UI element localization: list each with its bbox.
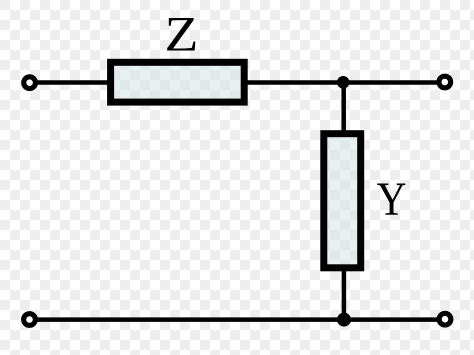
wire: top rail from Z to output terminal (245, 80, 445, 85)
svg-text:Y: Y (377, 173, 407, 226)
terminal: top-right output port (439, 76, 451, 88)
terminal: bottom-right port (439, 313, 451, 325)
terminal: top-left input port (24, 77, 36, 89)
wire: top-left rail from input terminal to Z (30, 80, 112, 85)
junction node: top rail / shunt branch (337, 76, 350, 89)
wire: bottom rail (30, 317, 446, 322)
series impedance Z (box) (111, 62, 245, 102)
wire: shunt branch lower segment (342, 268, 347, 320)
wire: shunt branch upper segment (341, 83, 346, 135)
svg-text:Z: Z (165, 6, 199, 62)
terminal: bottom-left port (24, 314, 36, 326)
shunt admittance Y (box) (324, 134, 361, 268)
junction node: bottom rail / shunt branch (337, 313, 351, 327)
